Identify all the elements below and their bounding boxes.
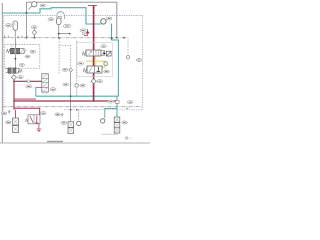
valve block A (left upper)	[6, 46, 26, 54]
junction dots	[13, 12, 118, 111]
label oval P1	[1, 4, 141, 124]
teal relief branch	[116, 96, 118, 117]
manifold outline	[77, 43, 113, 77]
valve D drain	[37, 124, 42, 132]
top gray supply line	[27, 2, 117, 37]
maroon long return	[14, 100, 116, 102]
small gauge circle on x76.8	[75, 84, 79, 88]
maroon cooler feed	[14, 80, 42, 82]
dashed corner sub-box2	[59, 45, 71, 67]
accumulator and check-valve drop lines	[15, 25, 69, 49]
valve V2 (center lower)	[83, 66, 102, 73]
highlighted pilot line (yellow net)	[86, 57, 106, 69]
valve A label circle	[25, 55, 30, 58]
title block text	[47, 141, 63, 142]
junction dot valve A-B	[15, 58, 17, 60]
drain symbol Y2	[61, 113, 64, 117]
solenoid diamond on x70.6	[69, 68, 73, 72]
gray drop from top line to suction line	[26, 2, 28, 38]
teal cooler loop	[36, 88, 42, 97]
teal return line	[36, 95, 119, 97]
bottom right port	[125, 137, 127, 139]
main pump P2	[101, 19, 106, 24]
valve block B (left lower)	[5, 68, 22, 73]
teal suction line	[3, 8, 102, 24]
dashed vertical x59	[58, 38, 60, 74]
main dashed enclosure	[4, 15, 143, 109]
port circle right	[126, 56, 129, 59]
junction dot A2	[58, 33, 60, 35]
teal port tick	[126, 107, 128, 109]
rail ticks	[5, 36, 27, 38]
pilot box	[82, 32, 85, 35]
dash-dot drain bus (lower)	[3, 106, 143, 108]
check valve CV1 diamond	[11, 75, 16, 80]
drain symbol Y1	[8, 110, 11, 114]
relief stack S3	[114, 117, 120, 133]
maroon discharge top	[88, 5, 97, 7]
teal pump drop line	[112, 24, 119, 97]
check valve arrow branch	[84, 29, 89, 36]
filter F box	[106, 51, 111, 56]
valve V1 (center upper)	[82, 50, 104, 56]
accumulator A2	[56, 18, 61, 25]
dashed sub-enclosure around left valve group	[4, 45, 40, 69]
drawing frame bottom border	[0, 142, 150, 144]
maroon return stub	[14, 98, 36, 100]
gauge dashed line x76.8	[76, 41, 78, 96]
teal gauge branch	[105, 109, 117, 119]
maroon branch to valve D	[14, 108, 40, 115]
relief stack S1	[13, 118, 19, 133]
gray vertical valve A-B link	[14, 55, 16, 69]
tiny valve on maroon return end	[116, 100, 119, 103]
maroon vertical from discharge	[93, 6, 95, 102]
gauge G1	[77, 121, 81, 125]
relief stack S2	[68, 122, 74, 134]
drawing frame left border	[1, 3, 3, 143]
accumulator A1	[13, 21, 18, 30]
dash-dot gland bus (upper)	[3, 37, 126, 39]
dashed vertical x128 port	[127, 38, 129, 56]
check valve CV0	[33, 31, 37, 35]
gauge dashed line to G1	[78, 110, 80, 121]
check valve CV2 diamond	[91, 79, 96, 84]
gauge G2	[100, 119, 104, 123]
filter F arrow	[103, 52, 106, 54]
gray square on yellow loop	[104, 62, 107, 65]
maroon lower distribution	[13, 80, 15, 110]
label text marks	[3, 6, 141, 123]
motor bell	[57, 12, 64, 19]
valve D (bottom left)	[25, 115, 40, 124]
inline orifice on cooler feed	[27, 80, 30, 83]
bus end arrow	[124, 36, 127, 39]
solenoid line x70.6 lower	[70, 72, 72, 122]
maroon feed S1	[15, 110, 17, 118]
pump P1 top left	[32, 2, 37, 7]
cooler / filter stack C	[42, 74, 49, 94]
